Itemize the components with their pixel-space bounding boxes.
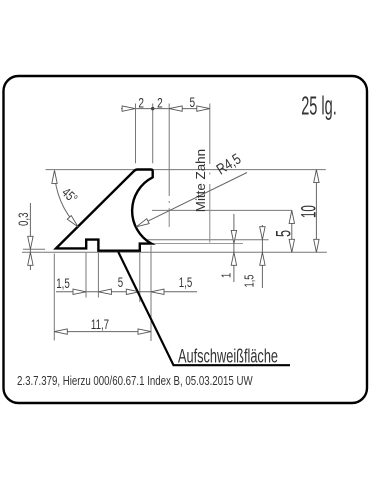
- leader Aufschweissflaeche: [118, 252, 290, 365]
- svg-text:1,5: 1,5: [179, 276, 193, 291]
- svg-text:5: 5: [118, 276, 124, 291]
- top dimension chain 2 2 5: [121, 108, 210, 110]
- R4,5 leader: [136, 173, 247, 227]
- center line vertical arc center x=169.2: [168, 104, 170, 197]
- extension line raised lip y=249.3: [23, 248, 45, 250]
- svg-text:1: 1: [220, 273, 234, 278]
- 5 dimension right: [291, 210, 293, 252]
- svg-text:1,5: 1,5: [243, 274, 257, 287]
- extension line top of profile y=169.6: [46, 169, 326, 171]
- drawing frame: [4, 76, 368, 403]
- 1,5 dimension right: [261, 225, 263, 288]
- svg-text:25 lg.: 25 lg.: [301, 92, 337, 120]
- svg-text:Aufschweißfläche: Aufschweißfläche: [178, 346, 278, 367]
- svg-text:5: 5: [271, 230, 295, 237]
- extension line weld bottom y=252.3: [22, 251, 327, 253]
- svg-text:0,3: 0,3: [17, 212, 32, 226]
- 0,3 dimension: [29, 203, 31, 270]
- svg-text:2: 2: [157, 95, 163, 111]
- svg-text:2: 2: [138, 95, 144, 111]
- profile outline: [56, 170, 153, 251]
- svg-text:5: 5: [189, 95, 195, 111]
- 10 dimension right: [315, 170, 317, 253]
- center line Mitte Zahn x=209.8: [209, 104, 211, 165]
- svg-text:1,5: 1,5: [56, 277, 70, 292]
- 11,7 dimension: [54, 331, 151, 333]
- svg-text:10: 10: [297, 205, 321, 218]
- svg-text:Mitte Zahn: Mitte Zahn: [193, 149, 208, 212]
- svg-text:R4,5: R4,5: [213, 150, 243, 177]
- svg-text:2.3.7.379, Hierzu 000/60.67.1: 2.3.7.379, Hierzu 000/60.67.1 Index B, 0…: [17, 375, 253, 389]
- extension line notch top y=239.7: [111, 239, 269, 241]
- bottom dimension chain 1,5 5 1,5: [56, 291, 197, 293]
- svg-text:11,7: 11,7: [91, 318, 109, 333]
- 45 degree dimension arc: [55, 171, 79, 227]
- extension line mid height y=210.4: [152, 209, 292, 211]
- 1 dimension right: [233, 214, 235, 282]
- extension line tail bottom y=243.5: [152, 243, 243, 245]
